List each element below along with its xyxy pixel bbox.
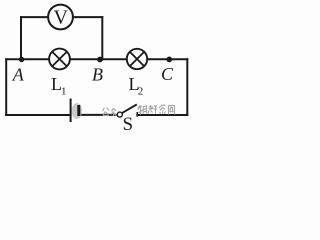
- battery long plate (positive): [70, 99, 72, 123]
- svg-text:V: V: [53, 7, 68, 29]
- watermark char gong: [103, 108, 110, 116]
- switch S lever: [122, 104, 137, 113]
- wire middle left segment through node A: [6, 58, 49, 60]
- node B junction dot: [97, 57, 103, 63]
- watermark char le: [159, 105, 166, 114]
- wire voltmeter branch left vertical: [20, 17, 22, 59]
- lamp L1 circle: [49, 49, 70, 70]
- svg-text:S: S: [123, 114, 134, 130]
- lamp L2 cross: [130, 52, 144, 66]
- wire middle right segment through node C: [147, 58, 187, 60]
- switch S fixed contact tick: [136, 112, 138, 117]
- watermark char li: [148, 105, 157, 114]
- svg-text:1: 1: [61, 85, 67, 97]
- watermark char zhong: [111, 108, 117, 116]
- watermark char wu: [138, 106, 147, 115]
- wire bottom from switch to right corner: [137, 114, 187, 116]
- watermark logo blob over battery: [72, 103, 82, 119]
- wire outer left vertical: [5, 59, 7, 115]
- battery short plate (negative): [77, 105, 80, 116]
- wire top-left from node above A to voltmeter: [21, 16, 49, 18]
- svg-text:2: 2: [138, 85, 144, 97]
- wire middle segment between L1 and L2 through node B: [70, 58, 127, 60]
- svg-text:C: C: [161, 64, 174, 84]
- voltmeter U1 circle: [48, 5, 73, 30]
- svg-text:B: B: [92, 64, 103, 84]
- wire voltmeter branch right vertical: [101, 17, 103, 59]
- wire top-right from voltmeter to node above B: [73, 16, 103, 18]
- lamp L2 circle: [127, 49, 147, 69]
- wire bottom from battery to switch: [80, 114, 118, 116]
- node A junction dot: [19, 57, 24, 62]
- lamp L1 cross: [52, 52, 67, 67]
- svg-text:A: A: [12, 64, 25, 84]
- node C dot: [166, 57, 172, 63]
- wire outer right vertical: [186, 59, 188, 115]
- watermark char yuan: [169, 106, 175, 115]
- wire bottom left to battery: [6, 114, 70, 116]
- switch S pivot circle: [117, 112, 122, 117]
